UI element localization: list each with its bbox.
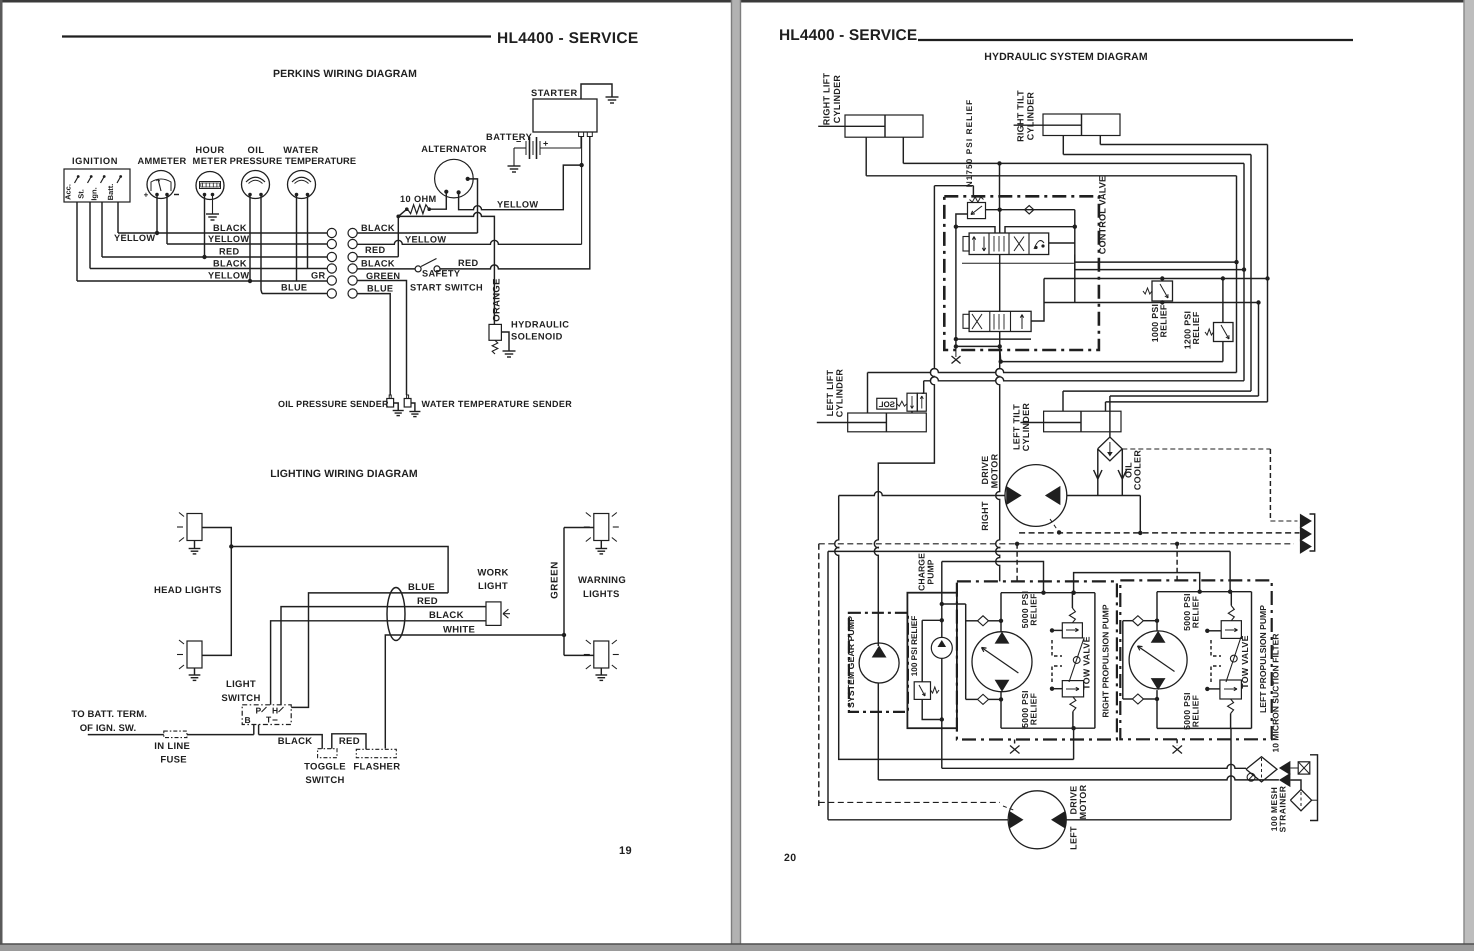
left lift cylinder wire A [867, 373, 869, 414]
svg-text:BLACK: BLACK [429, 610, 464, 621]
connector right column [348, 228, 357, 237]
dashed left return vertical [818, 544, 820, 806]
svg-text:LIGHTS: LIGHTS [583, 589, 620, 600]
system gear pump box [849, 613, 908, 712]
svg-text:DRIVE: DRIVE [980, 455, 990, 484]
bundle vertical V5 [1258, 303, 1260, 397]
wire oil pressure left to yellow bus 2 [249, 196, 251, 281]
svg-text:WORK: WORK [477, 568, 508, 579]
hour meter ground [206, 214, 219, 220]
right drive motor line [839, 492, 1005, 496]
hour meter ground wire [212, 195, 214, 214]
svg-text:OIL PRESSURE SENDER: OIL PRESSURE SENDER [278, 399, 389, 409]
right pump feed diamonds [965, 604, 967, 699]
line D to left tilt rear [1106, 401, 1268, 403]
oil cooler drain right [1121, 449, 1123, 496]
filter arrow [1279, 761, 1291, 775]
starter terminal 2 [587, 132, 592, 137]
svg-text:METER: METER [192, 156, 227, 166]
sol box [877, 398, 897, 409]
connector left column [327, 228, 336, 237]
hydraulic solenoid spring [492, 340, 498, 354]
bus wire blue row6 right [357, 294, 390, 395]
oil cooler drain left [1097, 449, 1099, 496]
right motor right vertical [1139, 496, 1141, 533]
svg-text:LEFT LIFT: LEFT LIFT [825, 369, 835, 416]
battery [580, 137, 582, 149]
svg-text:FUSE: FUSE [160, 755, 187, 766]
left drive motor [1008, 791, 1066, 849]
svg-text:LIGHTING WIRING DIAGRAM: LIGHTING WIRING DIAGRAM [270, 468, 418, 480]
oil pressure sender [389, 395, 391, 399]
bus wire blue row6 [262, 293, 327, 295]
bus wire green row5 right [357, 281, 406, 396]
left pump loop [1157, 591, 1252, 593]
dashed diagonal from motor [1050, 519, 1059, 532]
junction cv feed [997, 161, 1001, 165]
link right loop to left loop [1074, 573, 1200, 593]
wire ignition Ign to red bus [101, 202, 103, 257]
warning light lower ground [595, 675, 607, 680]
wire head lights vertical [202, 528, 231, 656]
work light lamp [486, 602, 501, 626]
tow valve pilot dashes left [1211, 640, 1221, 656]
bus wire yellow row2 [167, 243, 327, 245]
left drive motor line [828, 819, 1009, 821]
svg-text:SYSTEM GEAR PUMP: SYSTEM GEAR PUMP [846, 616, 856, 708]
svg-text:TOW VALVE: TOW VALVE [1082, 636, 1092, 690]
right pump bottom drain [1073, 728, 1075, 759]
svg-text:SOL: SOL [878, 400, 895, 409]
svg-text:SWITCH: SWITCH [305, 775, 344, 786]
svg-text:ORANGE: ORANGE [492, 278, 503, 322]
svg-text:CYLINDER: CYLINDER [1021, 403, 1031, 452]
svg-text:BLACK: BLACK [213, 259, 247, 269]
svg-text:H: H [272, 706, 278, 716]
line A to left lift cylinder [868, 369, 1237, 373]
cable bundle ellipse [387, 588, 405, 641]
cv bottom return line [1001, 361, 1223, 363]
warning lights vertical wire [563, 528, 565, 656]
right drive motor [1005, 465, 1067, 527]
cv supply vertical [874, 186, 934, 646]
svg-text:YELLOW: YELLOW [114, 233, 155, 243]
wire water temp right to black bus 2 [307, 196, 309, 269]
bottom line y780 suction [878, 776, 1279, 780]
svg-text:P: P [256, 706, 262, 716]
wire oil pressure right to blue bus [261, 196, 262, 294]
junction yellow-starter [579, 163, 583, 167]
5000 psi relief lower (left pump) [1220, 680, 1242, 699]
svg-text:YELLOW: YELLOW [208, 271, 249, 281]
wire light switch verticals [267, 704, 270, 706]
battery ground wire [513, 148, 515, 166]
svg-text:YELLOW: YELLOW [405, 235, 446, 245]
right pump loop [1001, 592, 1095, 594]
svg-text:HL4400 - SERVICE: HL4400 - SERVICE [779, 27, 917, 44]
right tilt cylinder [1043, 114, 1120, 136]
starter ground [606, 97, 619, 103]
5000 psi relief lower (right pump) [1062, 681, 1083, 697]
bundle vertical V2 [1243, 163, 1245, 380]
svg-text:RIGHT: RIGHT [980, 501, 990, 531]
resistor 10 ohm [405, 207, 409, 211]
svg-text:SWITCH: SWITCH [221, 693, 260, 704]
tow valve pilot dashes right [1052, 640, 1062, 656]
starter box [533, 99, 597, 132]
wire light switch B down [253, 725, 255, 735]
svg-text:100 PSI RELIEF: 100 PSI RELIEF [910, 616, 919, 677]
100 mesh strainer arrow [1279, 773, 1291, 787]
flasher box [356, 749, 396, 757]
cv right vertical [1074, 210, 1076, 270]
svg-text:GR: GR [311, 271, 325, 281]
dashed line case drain upper [1019, 532, 1299, 534]
svg-text:LEFT TILT: LEFT TILT [1012, 404, 1022, 450]
right propulsion pump circle [972, 632, 1032, 692]
svg-text:YELLOW: YELLOW [497, 200, 538, 210]
svg-text:PERKINS WIRING DIAGRAM: PERKINS WIRING DIAGRAM [273, 68, 417, 80]
bus wire red row3 [102, 256, 327, 258]
wire alternator terminal2 yellow [459, 165, 582, 210]
dashed pilot vertical right box [1016, 544, 1018, 582]
svg-text:RIGHT LIFT: RIGHT LIFT [822, 73, 832, 126]
svg-text:HYDRAULIC SYSTEM DIAGRAM: HYDRAULIC SYSTEM DIAGRAM [984, 51, 1148, 63]
svg-text:RED: RED [365, 245, 385, 255]
dashed into left motor [819, 801, 1000, 803]
system gear pump circle [859, 643, 899, 683]
left pump loop drain vertical [1230, 728, 1232, 819]
10 micron suction filter [1246, 757, 1277, 782]
relief to tank square [1298, 762, 1310, 774]
system pump shaft [877, 683, 879, 780]
top line to V2 [903, 162, 1244, 164]
charge pump box [907, 593, 957, 729]
junction hourmeter-red [202, 255, 206, 259]
starter terminal 1 [579, 132, 584, 137]
svg-text:IGNITION: IGNITION [72, 156, 118, 166]
warning light lower ground wire [600, 668, 602, 675]
head light lower lamp [187, 641, 202, 668]
svg-text:RELIEF: RELIEF [1191, 311, 1201, 344]
return arrows to tank [1300, 514, 1312, 529]
svg-text:HL4400 - SERVICE: HL4400 - SERVICE [497, 30, 638, 47]
wire resistor junction to hydraulic solenoid (orange) [398, 212, 494, 324]
svg-text:RIGHT TILT: RIGHT TILT [1016, 90, 1026, 142]
X mark right pump [1014, 740, 1016, 747]
charge pump circle [931, 637, 952, 658]
svg-text:SAFETY: SAFETY [422, 269, 460, 279]
dashed line suction long [819, 543, 1294, 545]
line E oil cooler [1110, 395, 1259, 397]
svg-text:RELIEF: RELIEF [1159, 304, 1169, 337]
svg-text:BLACK: BLACK [278, 736, 313, 747]
svg-text:IN LINE: IN LINE [154, 741, 190, 752]
wire ignition St to black bus 2 [89, 202, 91, 269]
cv relief valve [968, 203, 986, 219]
left tilt cylinder [1044, 411, 1121, 432]
cv lower spool valve [969, 311, 1031, 331]
sol valve wire to line B [922, 381, 924, 393]
svg-text:MOTOR: MOTOR [1078, 784, 1088, 819]
svg-text:RELIEF: RELIEF [1191, 596, 1201, 628]
hydraulic solenoid box [489, 324, 501, 340]
svg-text:STARTER: STARTER [531, 88, 578, 98]
hydraulic solenoid ground wire [501, 332, 509, 351]
svg-text:WARNING: WARNING [578, 575, 626, 586]
left pump feed diamonds [1122, 621, 1124, 699]
right lift cylinder [845, 115, 923, 137]
oil cooler [1098, 437, 1123, 461]
junction head lights [229, 544, 233, 548]
wire alternator terminal1 to resistor [429, 192, 446, 209]
wire blue line [291, 593, 448, 708]
wire red switch to starter [440, 136, 590, 269]
svg-text:T: T [266, 715, 272, 725]
wire ammeter left to black bus [156, 196, 158, 233]
cv bottom lines [956, 338, 1031, 340]
cv exit line y262 [1049, 242, 1075, 244]
bus wire black row4 right to switch [357, 268, 415, 270]
svg-text:YELLOW: YELLOW [208, 234, 249, 244]
svg-text:20: 20 [784, 852, 796, 864]
cv lower spool surround [955, 227, 957, 339]
svg-text:RELIEF: RELIEF [1029, 593, 1039, 625]
svg-text:RED: RED [458, 258, 478, 268]
warning light upper lamp [594, 514, 609, 541]
svg-text:STRAINER: STRAINER [1278, 786, 1288, 833]
wire black line [271, 621, 486, 705]
main line left loop [827, 551, 829, 819]
svg-text:RELIEF: RELIEF [1029, 693, 1039, 725]
junction white-warning [562, 633, 566, 637]
100 mesh strainer [1290, 780, 1301, 790]
sol solenoid valve [907, 393, 917, 411]
hydraulic solenoid ground [503, 351, 516, 357]
svg-text:HEAD LIGHTS: HEAD LIGHTS [154, 585, 222, 596]
svg-text:RED: RED [339, 736, 360, 747]
head light upper lamp [187, 514, 202, 541]
svg-text:GREEN: GREEN [366, 271, 400, 281]
svg-text:BLUE: BLUE [281, 283, 307, 293]
tow valve left pump [1226, 637, 1241, 682]
top line to V3 [1063, 154, 1251, 156]
svg-text:St.: St. [77, 189, 86, 199]
svg-text:RIGHT PROPULSION PUMP: RIGHT PROPULSION PUMP [1101, 604, 1111, 717]
left propulsion pump box [1120, 580, 1271, 739]
warning light upper ground wire [600, 541, 602, 549]
bottom line y759 [835, 496, 1074, 760]
bus wire yellow row5 [77, 280, 327, 282]
svg-text:BLUE: BLUE [408, 582, 435, 593]
svg-text:TO BATT. TERM.: TO BATT. TERM. [72, 709, 147, 720]
charge pump wires [941, 593, 943, 638]
right tilt cylinder wires [1062, 136, 1064, 155]
right lift cylinder wires [865, 137, 867, 176]
ignition switch box [64, 169, 130, 202]
tow valve right pump [1069, 638, 1084, 682]
toggle switch box [318, 749, 337, 758]
junction oilpressure-yellow [248, 279, 252, 283]
cv exit line y269 [1075, 269, 1244, 271]
wire alternator terminal3 to black bus [468, 179, 478, 233]
cv top line with check valve [986, 209, 1075, 211]
100 psi relief [914, 682, 930, 700]
svg-text:Acc.: Acc. [64, 184, 73, 200]
hour meter gauge [196, 172, 224, 200]
wire black to toggle switch [258, 725, 260, 735]
svg-text:FLASHER: FLASHER [353, 762, 400, 773]
top line to V4 [1100, 144, 1267, 146]
bus wire black row1 right [357, 232, 477, 234]
left tilt cylinder wires [1062, 391, 1064, 411]
relief valve 1200 psi [1214, 323, 1234, 342]
svg-text:RED: RED [417, 596, 438, 607]
head light upper ground [189, 549, 201, 554]
cv X mark [955, 346, 957, 357]
wire hour meter left to red bus [204, 196, 206, 257]
bundle vertical V4 [1267, 145, 1269, 402]
filter bypass circle [1247, 773, 1255, 781]
svg-text:ALTERNATOR: ALTERNATOR [421, 144, 487, 154]
svg-text:10 OHM: 10 OHM [400, 194, 437, 204]
oil cooler top wire [1109, 396, 1111, 437]
wire red to flasher [332, 734, 366, 750]
junction ammeter-black [155, 231, 159, 235]
svg-text:CYLINDER: CYLINDER [832, 75, 842, 124]
svg-text:RELIEF: RELIEF [1191, 695, 1201, 727]
left lift cylinder [848, 413, 927, 432]
cv check valve diamond [1025, 206, 1034, 214]
svg-text:HYDRAULIC: HYDRAULIC [511, 320, 569, 330]
bus wire red row3 right [357, 256, 398, 258]
svg-text:19: 19 [619, 845, 632, 857]
head light upper ground wire [194, 541, 196, 549]
tank bracket [1310, 755, 1318, 821]
water temperature gauge [288, 171, 316, 199]
svg-text:DRIVE: DRIVE [1069, 785, 1079, 814]
wire starter terminal1 down (yellow junction) [581, 137, 583, 245]
wire water temp left to green row [296, 196, 298, 281]
safety start switch [415, 266, 421, 272]
svg-text:Batt.: Batt. [106, 184, 115, 201]
svg-text:TEMPERATURE: TEMPERATURE [285, 156, 356, 166]
svg-text:WHITE: WHITE [443, 625, 475, 636]
cv feed vertical [999, 163, 1001, 209]
wire red line [281, 607, 486, 705]
wire resistor to orange line [398, 209, 407, 216]
warning light lower lamp [594, 641, 609, 668]
svg-text:START SWITCH: START SWITCH [410, 283, 483, 293]
svg-text:CYLINDER: CYLINDER [835, 369, 845, 418]
svg-text:CYLINDER: CYLINDER [1026, 92, 1036, 141]
svg-text:10 MICRON SUCTION FILTER: 10 MICRON SUCTION FILTER [1271, 633, 1281, 752]
svg-text:PRESSURE: PRESSURE [230, 156, 283, 166]
top line to V1 [866, 175, 1236, 177]
svg-text:N1750 PSI RELIEF: N1750 PSI RELIEF [965, 99, 974, 188]
svg-text:BATTERY: BATTERY [486, 132, 533, 142]
wire ignition Batt to black bus [117, 202, 119, 233]
water temperature sender [407, 395, 409, 399]
svg-text:LEFT: LEFT [1069, 826, 1079, 850]
svg-text:+: + [144, 191, 149, 200]
svg-text:OIL: OIL [248, 145, 265, 155]
svg-text:OF IGN. SW.: OF IGN. SW. [80, 723, 137, 734]
right propulsion pump box [957, 581, 1117, 739]
left loop to left pump [1229, 551, 1231, 591]
relief valve 1000 psi [1152, 281, 1173, 301]
svg-text:SOLENOID: SOLENOID [511, 332, 563, 342]
X mark left pump [1176, 739, 1178, 746]
cv upper spool valve [969, 233, 1049, 255]
svg-text:BLACK: BLACK [213, 223, 247, 233]
cv relief left loop [956, 214, 968, 227]
bus wire yellow row2 right [357, 240, 581, 244]
cv mid lines [999, 210, 1001, 233]
svg-text:−: − [516, 137, 521, 147]
wire headlights to blue line [231, 547, 448, 593]
ammeter gauge [147, 171, 175, 199]
bus wire black row1 [118, 232, 327, 234]
starter ground wire [581, 84, 612, 99]
svg-text:BLACK: BLACK [361, 223, 395, 233]
cv exit line y302 [1044, 302, 1259, 304]
sol valve spring [897, 401, 907, 406]
cv drain vertical [996, 362, 1000, 582]
svg-text:RED: RED [219, 247, 239, 257]
svg-text:+: + [543, 139, 548, 149]
bundle vertical V1 [1236, 176, 1238, 373]
svg-text:PUMP: PUMP [926, 559, 936, 584]
svg-text:COOLER: COOLER [1133, 450, 1143, 491]
svg-text:Ign.: Ign. [90, 187, 99, 200]
5000 psi relief upper (left pump) [1221, 621, 1241, 639]
left page header rule [62, 35, 491, 37]
wire ammeter right to yellow bus [166, 196, 168, 244]
svg-text:AMMETER: AMMETER [137, 156, 186, 166]
svg-text:GREEN: GREEN [550, 561, 561, 599]
svg-text:TOGGLE: TOGGLE [304, 762, 346, 773]
bundle vertical V3 [1250, 155, 1252, 392]
charge link line [942, 562, 1044, 593]
svg-text:HOUR: HOUR [195, 145, 224, 155]
svg-text:WATER TEMPERATURE SENDER: WATER TEMPERATURE SENDER [422, 399, 573, 409]
oil pressure gauge [242, 171, 270, 199]
wire ignition Acc to yellow bus 2 [76, 202, 78, 281]
svg-text:LIGHT: LIGHT [226, 679, 256, 690]
svg-text:TOW VALVE: TOW VALVE [1240, 635, 1250, 689]
cv exit line y278 (1000 psi) [1031, 303, 1044, 322]
oil cooler dashed out [1122, 448, 1270, 450]
line B to sol valve [924, 377, 1244, 381]
warning light upper ground [595, 549, 607, 554]
feed wire to light switch [88, 734, 164, 736]
svg-text:LIGHT: LIGHT [478, 581, 508, 592]
svg-text:CONTROL VALVE: CONTROL VALVE [1098, 176, 1108, 254]
sol valve wire to cylinder [911, 411, 913, 413]
wire white line [385, 635, 564, 749]
light switch box [242, 705, 291, 725]
head light lower ground [189, 675, 201, 680]
bus wire black row4 [90, 268, 327, 270]
wire red row3 riser to resistor [397, 216, 399, 256]
dashed pilot vertical left box [1176, 544, 1178, 581]
svg-text:B: B [245, 715, 251, 725]
line C to left tilt [1063, 390, 1251, 392]
svg-text:LEFT PROPULSION PUMP: LEFT PROPULSION PUMP [1258, 605, 1268, 713]
5000 psi relief upper (right pump) [1062, 623, 1082, 638]
right page header rule [918, 39, 1353, 41]
